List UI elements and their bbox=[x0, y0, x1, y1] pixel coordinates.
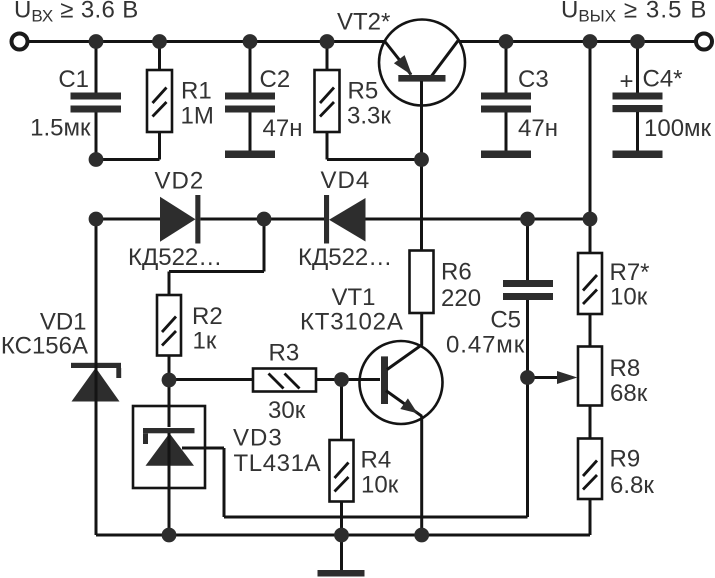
wiper arrow to R8 bbox=[528, 371, 578, 384]
svg-text:1M: 1M bbox=[181, 103, 214, 130]
wire top rail bbox=[27, 40, 696, 43]
node rail R4 ground bbox=[334, 528, 349, 543]
svg-text:КС156А: КС156А bbox=[1, 333, 88, 360]
svg-text:C2: C2 bbox=[260, 66, 291, 93]
svg-text:TL431A: TL431A bbox=[234, 450, 322, 477]
input terminal bbox=[12, 34, 28, 50]
node VD2 anode bbox=[89, 212, 104, 227]
svg-text:R3: R3 bbox=[269, 340, 300, 367]
svg-text:1.5мк: 1.5мк bbox=[30, 115, 91, 142]
svg-text:+: + bbox=[620, 68, 634, 95]
svg-text:VD2: VD2 bbox=[155, 168, 205, 195]
svg-text:10к: 10к bbox=[361, 472, 399, 499]
svg-text:R5: R5 bbox=[348, 78, 379, 105]
svg-text:100мк: 100мк bbox=[644, 115, 712, 142]
svg-text:6.8к: 6.8к bbox=[610, 472, 654, 499]
svg-text:КТ3102А: КТ3102А bbox=[300, 309, 404, 336]
svg-text:C4*: C4* bbox=[643, 66, 683, 93]
node C5 top bbox=[520, 212, 535, 227]
ground bbox=[318, 535, 365, 577]
node input rail R1 bbox=[152, 34, 167, 49]
transistor VT2 bbox=[337, 9, 465, 160]
node input rail C2 bbox=[243, 34, 258, 49]
node R7 top bbox=[583, 212, 598, 227]
svg-text:R9: R9 bbox=[610, 446, 641, 473]
svg-text:R7*: R7* bbox=[610, 259, 650, 286]
svg-text:R4: R4 bbox=[361, 447, 392, 474]
svg-text:VD1: VD1 bbox=[40, 309, 87, 336]
capacitor C4 bbox=[613, 42, 712, 151]
capacitor C3 bbox=[481, 42, 558, 151]
node output rail C4 bbox=[630, 34, 645, 49]
IC VD3 TL431A bbox=[133, 380, 321, 535]
output terminal bbox=[696, 34, 712, 50]
svg-text:47н: 47н bbox=[518, 115, 558, 142]
svg-text:R8: R8 bbox=[610, 355, 641, 382]
capacitor C2 bbox=[225, 42, 302, 151]
svg-text:C5: C5 bbox=[490, 307, 521, 334]
node VD2 VD4 cathodes bbox=[257, 212, 272, 227]
svg-text:VT1: VT1 bbox=[332, 284, 376, 311]
diode VD2 bbox=[96, 168, 264, 272]
resistor R5 bbox=[315, 42, 422, 160]
svg-text:R1: R1 bbox=[181, 78, 212, 105]
resistor R7 bbox=[578, 253, 650, 314]
node R2 R3 VD3 bbox=[162, 373, 177, 388]
svg-text:C3: C3 bbox=[518, 66, 549, 93]
wire R2 branch bbox=[169, 219, 264, 295]
svg-text:1к: 1к bbox=[193, 328, 217, 355]
node input rail C1 bbox=[89, 34, 104, 49]
svg-text:КД522…: КД522… bbox=[298, 244, 392, 271]
resistor R9 bbox=[578, 406, 654, 536]
svg-text:30к: 30к bbox=[268, 397, 306, 424]
resistor R6 bbox=[410, 160, 482, 314]
zener diode VD1 bbox=[1, 219, 121, 535]
svg-text:3.3к: 3.3к bbox=[347, 103, 391, 130]
node output rail R7 bbox=[583, 34, 598, 49]
svg-text:68к: 68к bbox=[610, 380, 648, 407]
node R8 wiper bbox=[520, 370, 535, 385]
svg-text:C1: C1 bbox=[58, 66, 89, 93]
wire bottom rail bbox=[96, 534, 590, 537]
node rail VD3 bbox=[162, 528, 177, 543]
svg-text:VD4: VD4 bbox=[321, 167, 371, 194]
capacitor C1 bbox=[30, 42, 121, 161]
svg-text:0.47мк: 0.47мк bbox=[446, 332, 525, 359]
node rail VT1 emitter bbox=[414, 528, 429, 543]
svg-text:VD3: VD3 bbox=[233, 425, 283, 452]
ground bar under C2 bbox=[225, 151, 275, 159]
diode VD4 bbox=[264, 167, 590, 271]
wire output branch bbox=[589, 42, 592, 254]
svg-text:VT2*: VT2* bbox=[337, 9, 390, 36]
svg-text:47н: 47н bbox=[263, 115, 303, 142]
potentiometer R8 bbox=[578, 314, 648, 407]
resistor R4 bbox=[330, 380, 399, 536]
svg-text:R2: R2 bbox=[192, 303, 223, 330]
node VT2 base bbox=[414, 152, 429, 167]
resistor R1 bbox=[96, 42, 214, 160]
svg-text:R6: R6 bbox=[441, 259, 472, 286]
resistor R3 bbox=[169, 340, 342, 425]
svg-text:220: 220 bbox=[441, 285, 481, 312]
ground bar under C3 bbox=[481, 151, 531, 159]
svg-text:10к: 10к bbox=[610, 284, 648, 311]
resistor R2 bbox=[157, 295, 223, 380]
ground bar under C4 bbox=[613, 151, 663, 159]
node output rail C3 bbox=[499, 34, 514, 49]
node VT1 base bbox=[334, 372, 349, 387]
node input rail R5 bbox=[320, 34, 335, 49]
node C1 R1 bbox=[89, 152, 104, 167]
transistor VT1 bbox=[300, 284, 443, 535]
capacitor C5 bbox=[446, 219, 553, 378]
wire VD3 reference bbox=[182, 378, 528, 518]
svg-text:КД522…: КД522… bbox=[128, 244, 222, 271]
